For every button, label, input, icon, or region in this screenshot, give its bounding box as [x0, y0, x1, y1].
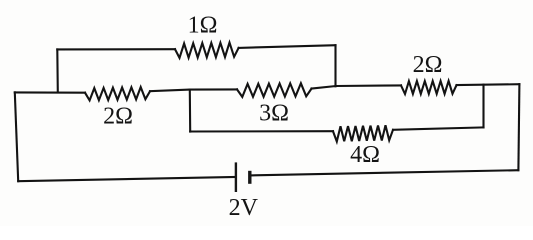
wire 4ohm-branch left vertical — [189, 90, 191, 132]
svg-text:4Ω: 4Ω — [350, 142, 380, 168]
resistor R3 3ohm — [237, 83, 312, 97]
resistor R1 1ohm — [175, 43, 239, 58]
svg-text:2V: 2V — [229, 195, 259, 221]
battery V1 positive plate — [235, 162, 237, 192]
resistor R5 4ohm — [333, 125, 393, 141]
wire right vertical — [518, 84, 519, 170]
svg-text:3Ω: 3Ω — [259, 101, 289, 127]
wire middle segment C — [312, 85, 402, 88]
resistor R2 2ohm left — [85, 87, 150, 100]
wire bottom right — [250, 170, 518, 175]
wire middle segment B — [150, 89, 237, 91]
wire 4ohm-branch right horizontal — [393, 127, 484, 129]
wire 4ohm-branch left horizontal — [190, 130, 333, 132]
wire top-branch left horizontal — [57, 48, 175, 50]
wire middle segment A — [15, 91, 85, 93]
wire left vertical — [15, 92, 18, 181]
svg-text:1Ω: 1Ω — [188, 12, 218, 38]
svg-text:2Ω: 2Ω — [103, 104, 133, 130]
wire 4ohm-branch right vertical — [482, 85, 484, 128]
svg-text:2Ω: 2Ω — [413, 52, 443, 78]
wire top-branch right vertical — [334, 45, 336, 86]
resistor R4 2ohm right — [401, 81, 457, 94]
wire middle segment D — [457, 83, 520, 86]
battery V1 negative plate — [248, 171, 251, 184]
wire top-branch left vertical — [56, 49, 59, 92]
wire top-branch right horizontal — [239, 45, 336, 48]
wire bottom left — [18, 177, 236, 181]
